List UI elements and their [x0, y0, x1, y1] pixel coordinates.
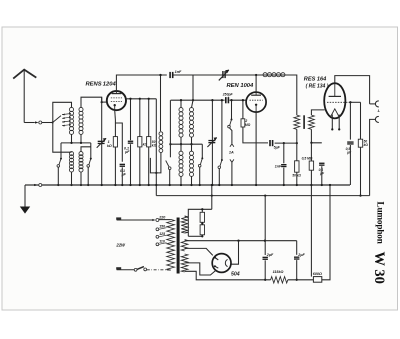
wire C12 drop	[349, 102, 351, 139]
svg-text:REN 1004: REN 1004	[227, 83, 255, 89]
wire screen feed	[126, 98, 156, 100]
capacitor C13 2uF	[263, 257, 268, 260]
resistor R3	[147, 137, 151, 147]
svg-text:kΩ: kΩ	[107, 144, 112, 148]
wire L5 bypass loop	[150, 153, 161, 173]
label C12	[346, 147, 353, 155]
wire L4 bottom to bus	[80, 172, 82, 186]
tube V4 504	[212, 254, 231, 273]
switch S3	[87, 158, 92, 168]
capacitor C8 5uF	[269, 140, 273, 146]
mains switch S8	[134, 267, 146, 272]
antenna coil L3	[69, 152, 73, 173]
speaker terminal 1	[375, 101, 378, 107]
wire S3 to ground bus	[87, 167, 89, 186]
svg-text:2µF: 2µF	[266, 253, 274, 257]
label R7 50k	[292, 173, 301, 177]
label V3 RES 164	[304, 77, 329, 90]
wire R6 middle	[296, 129, 298, 143]
wire antenna coil frame	[53, 102, 72, 122]
wire C4 to IF coil	[173, 75, 194, 101]
wire V3 anode riser	[335, 76, 370, 104]
mains lead bottom	[116, 268, 134, 269]
tube V1 RENS1204	[107, 91, 126, 110]
wire R10 to cathode line	[359, 147, 361, 197]
label R9 0,5M	[302, 157, 313, 161]
label 22W	[115, 242, 126, 247]
node cathode-hum	[211, 194, 213, 196]
wire grid leak drop	[242, 99, 244, 119]
speaker terminal 2	[375, 116, 378, 122]
label C8 5uF	[274, 146, 281, 150]
label C7 250pF	[222, 92, 234, 96]
svg-text:W 30: W 30	[371, 252, 387, 284]
svg-text:0,5 MΩ: 0,5 MΩ	[302, 157, 313, 161]
capacitor C14 2uF	[294, 257, 299, 260]
mains dashed link	[147, 269, 167, 271]
svg-text:504: 504	[231, 272, 240, 278]
wire C9 drop	[283, 143, 285, 163]
wire bus to ground	[24, 185, 26, 207]
wire to R14	[288, 279, 314, 281]
trimmer capacitor C6	[219, 70, 229, 81]
wire V3 filament pins	[331, 115, 340, 131]
wire R3 to bus	[148, 147, 150, 186]
grid line V2	[171, 99, 247, 101]
svg-text:Lumophon: Lumophon	[376, 202, 386, 244]
antenna plug connector	[35, 121, 42, 124]
wire C2 to bus	[121, 167, 123, 186]
wire L8 to bus	[180, 176, 182, 186]
wire frame to LW coils	[53, 123, 72, 153]
wire coil bottoms junction	[61, 142, 91, 144]
mains connector 220	[152, 219, 159, 222]
resistor R12 hum	[200, 222, 204, 237]
svg-text:22W: 22W	[115, 242, 126, 247]
label C9 1nF	[275, 165, 282, 169]
wire R2 drop	[139, 98, 141, 137]
label 220	[158, 216, 166, 220]
ground bus	[25, 184, 350, 186]
svg-text:250pF: 250pF	[222, 92, 234, 96]
wire L7 bottom	[191, 137, 193, 144]
mains lead top	[116, 219, 152, 220]
wire choke to R6	[285, 75, 297, 115]
resistor R5 2M	[241, 119, 245, 127]
wire plate riser	[231, 241, 239, 265]
wire screen to cathode line	[155, 99, 157, 196]
wire R9 to 600 ohm	[310, 170, 312, 276]
transformer secondary S-fil	[181, 216, 188, 233]
wire C11 to bus	[321, 166, 323, 186]
svg-text:1A: 1A	[229, 151, 234, 155]
label R2	[143, 142, 148, 146]
wire L2 bottom	[80, 135, 82, 143]
wire C8 to R6	[275, 142, 298, 144]
switch S5	[198, 157, 203, 167]
wire cathode branch	[115, 123, 122, 162]
svg-text:µF: µF	[124, 150, 130, 154]
label R4 50k	[152, 140, 157, 148]
wire C3 drop	[129, 98, 131, 141]
switch S6	[218, 159, 223, 169]
wire switch S6 drop	[221, 99, 223, 160]
wire hum riser	[211, 184, 213, 209]
svg-text:110: 110	[159, 239, 165, 243]
wire primary ends	[159, 220, 171, 270]
osc coil L9	[189, 151, 193, 176]
wire R5 to C8	[243, 127, 268, 143]
svg-text:150: 150	[159, 224, 165, 228]
label V2 REN 1004	[227, 83, 255, 89]
trimmer capacitor C1	[97, 138, 107, 148]
resistor R2	[138, 137, 142, 147]
wire fuse drop	[230, 99, 232, 119]
wire S2 to ground bus	[57, 167, 59, 186]
wire coil junction line	[169, 143, 202, 145]
wire terminal 2 down	[370, 119, 376, 195]
choke L10	[263, 73, 285, 77]
wire osc tuning drop	[211, 99, 213, 186]
wire V1 grid	[101, 101, 107, 103]
wire L9 top	[191, 144, 193, 151]
svg-text:2µF: 2µF	[297, 253, 305, 257]
capacitor C7 250pF	[225, 97, 229, 103]
resistor R9 0,5M	[309, 161, 313, 170]
wire switch S4 drop	[169, 100, 171, 157]
wire to band switch	[42, 122, 53, 124]
svg-text:5µF: 5µF	[274, 146, 281, 150]
antenna coil L1	[69, 107, 73, 134]
label R13 115k	[273, 270, 284, 274]
capacitor C2 0,1uF	[120, 164, 125, 167]
svg-text:220: 220	[158, 216, 166, 220]
wire V2 cathode to bus	[255, 112, 257, 186]
wire R10 drop	[360, 102, 362, 139]
transformer secondary S-HT	[181, 240, 188, 252]
wire C3 to bus	[129, 144, 131, 186]
switch S2	[57, 158, 62, 168]
svg-text:( RE 134 ): ( RE 134 )	[306, 83, 329, 89]
svg-text:115kΩ: 115kΩ	[273, 270, 284, 274]
wire switch S5 drop	[201, 144, 203, 158]
wire R6 to R7	[296, 143, 298, 161]
wire V3 grid cap line	[349, 101, 360, 103]
coupling capacitor C10	[303, 115, 305, 129]
wire F1 to bus	[231, 162, 233, 186]
wire to speaker terminal 1	[370, 103, 376, 105]
wire L1 bottom	[71, 135, 73, 143]
resistor R13 115k	[271, 277, 288, 283]
wire IF L7 top	[192, 100, 194, 107]
svg-text:600Ω: 600Ω	[313, 272, 322, 276]
wire L9 to bus	[190, 176, 192, 186]
resistor R11 hum	[200, 208, 204, 222]
label L speaker	[378, 108, 381, 113]
wire R2 to bus	[139, 147, 141, 186]
wire L8 top	[180, 144, 182, 151]
label F1 1A	[229, 151, 234, 155]
label R1 1k	[107, 140, 112, 148]
wire to switch S3	[90, 143, 92, 159]
transformer core	[177, 218, 180, 274]
resistor R7 50k	[295, 161, 299, 172]
wire grid tuning drop	[101, 97, 103, 186]
resistor R14 600	[313, 277, 321, 283]
wire V1 anode riser	[116, 75, 166, 91]
label V1 RENS1204	[86, 82, 117, 88]
svg-text:125: 125	[159, 232, 165, 236]
antenna	[13, 70, 36, 123]
label C13 2uF	[266, 253, 274, 257]
wire IF L6 top	[180, 99, 182, 108]
bus connector	[34, 184, 42, 187]
wire R14 to bus	[322, 184, 331, 280]
capacitor C13 2uF drop	[264, 196, 266, 255]
cathode line	[156, 195, 369, 197]
trimmer capacitor C5	[207, 137, 217, 147]
label R14 600	[313, 272, 322, 276]
transformer primary	[167, 219, 175, 270]
wire L4 top	[81, 147, 91, 152]
wire V1 cathode	[114, 110, 117, 137]
label C11	[319, 168, 325, 176]
wire S5 to bus	[199, 167, 201, 186]
label C14 2uF	[297, 253, 305, 257]
switch S7	[228, 119, 233, 128]
wire anode coupling tap	[159, 74, 161, 131]
fuse F1 1A	[230, 144, 234, 162]
svg-text:MΩ: MΩ	[245, 123, 251, 127]
wire C12 to bus end	[349, 145, 351, 185]
resistor R8 grid	[309, 115, 315, 129]
capacitor C9 1nF	[281, 164, 286, 167]
HT plate line	[185, 240, 297, 242]
wire rect fil lead1	[185, 263, 216, 275]
wire C14 down	[296, 260, 298, 281]
resistor R10 50k	[358, 139, 362, 147]
svg-text:kΩ: kΩ	[364, 143, 369, 147]
svg-text:50: 50	[292, 173, 296, 177]
osc coil L8	[179, 151, 183, 176]
label V4 504	[231, 272, 240, 278]
wire L6 bottom	[180, 137, 182, 144]
svg-text:1nF: 1nF	[175, 70, 182, 74]
capacitor C11 0,1uF	[319, 163, 324, 166]
wire antenna lead-in	[24, 122, 35, 124]
wire fil bottom lead	[185, 231, 189, 234]
tube V2 REN1004	[246, 92, 266, 112]
resistor R1	[113, 137, 117, 147]
label R5 2M	[244, 119, 250, 127]
wire rect fil lead2	[185, 271, 271, 281]
wire S4 to bus	[169, 170, 171, 187]
svg-text:kΩ: kΩ	[152, 144, 157, 148]
tube V3 RES164	[324, 83, 350, 118]
title W 30	[371, 252, 387, 284]
label C2	[120, 169, 127, 177]
wire fil top lead	[185, 216, 189, 218]
wire L2 top to grid node	[81, 97, 102, 107]
svg-text:1nF: 1nF	[275, 165, 282, 169]
wire S6 to bus	[218, 169, 220, 187]
band switch S1 arm	[52, 116, 61, 124]
wire R8 top to V3 grid	[311, 110, 324, 115]
wire R9 drop	[310, 143, 312, 161]
title Lumophon	[376, 202, 386, 244]
transformer secondary S-rect	[181, 254, 188, 272]
wire B+ corner	[296, 241, 298, 255]
capacitor C12 0,5uF	[347, 141, 353, 144]
antenna coil L2	[79, 107, 83, 134]
wire anode line to trimmer	[159, 74, 296, 76]
band switch S1 tap contacts	[62, 113, 71, 127]
wire C9 to bus	[283, 168, 285, 187]
label C4 1nF	[175, 70, 182, 74]
wire R8 bottom jog	[310, 129, 322, 144]
wire R1 to bus	[114, 147, 116, 186]
resistor R6 grid leak	[294, 115, 300, 129]
switch S4	[166, 161, 171, 170]
IF coil L6	[179, 108, 183, 138]
antenna coil L4	[79, 152, 83, 173]
label R10 50k	[364, 140, 369, 148]
label C3	[124, 146, 130, 154]
wire V2 anode riser	[255, 74, 257, 92]
wire HT second lead	[185, 248, 213, 255]
wire to switch S2	[60, 143, 62, 159]
capacitor C4 1nF	[169, 72, 173, 78]
wire L3 bottom to bus	[70, 172, 72, 186]
wire C13 to line	[264, 260, 266, 280]
coupling coil L5	[159, 132, 163, 153]
voltage selector taps	[156, 224, 167, 245]
svg-text:RES 164: RES 164	[304, 77, 327, 83]
wire S7 stub	[229, 128, 232, 144]
svg-text:µF: µF	[121, 173, 127, 177]
svg-text:RENS 1204: RENS 1204	[86, 82, 117, 88]
node cathode-2uF	[264, 194, 266, 196]
ground	[20, 207, 30, 214]
wire R3 drop	[148, 98, 150, 137]
hum loop	[188, 209, 212, 236]
capacitor C3 0,1uF	[128, 141, 133, 144]
wire R7 to bus	[296, 172, 298, 186]
IF coil L7	[189, 108, 193, 138]
